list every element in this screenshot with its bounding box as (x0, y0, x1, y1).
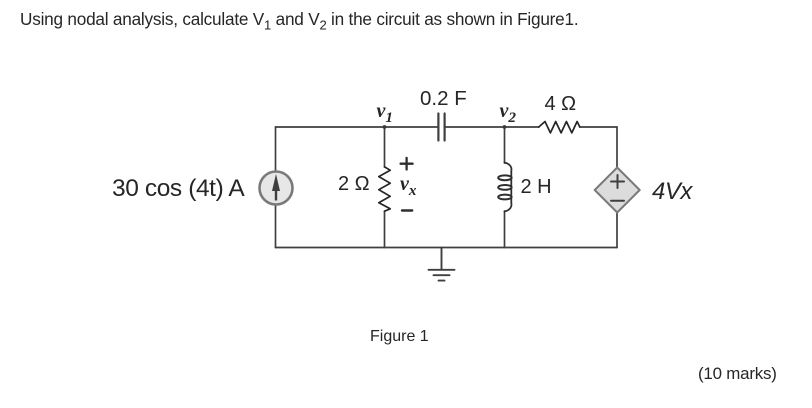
label 4 ohm (545, 93, 577, 116)
wire branch v2 above inductor (504, 127, 506, 163)
wire right above diamond (616, 127, 618, 168)
polarity plus for vx (401, 158, 413, 170)
resistor 2 ohm zigzag (379, 167, 390, 211)
wire bottom (276, 247, 618, 249)
wire right below diamond (616, 213, 618, 248)
label 30 cos (4t) A (112, 175, 244, 203)
label 0.2 F (420, 87, 467, 111)
diamond plus sign (611, 175, 624, 188)
wire branch v1 below resistor (384, 211, 386, 247)
label 4Vx (652, 178, 692, 206)
wire top right after resistor (580, 126, 617, 128)
label vx (400, 173, 416, 200)
marks note (698, 364, 777, 384)
current source arrow (272, 174, 280, 201)
dependent source 4Vx diamond (595, 168, 640, 213)
wire branch v2 below inductor (504, 211, 506, 248)
label 2 ohm (338, 173, 370, 196)
polarity minus for vx (402, 209, 412, 211)
label 2 H (521, 176, 552, 199)
ground symbol (429, 248, 455, 281)
wire branch v1 above resistor (384, 127, 386, 167)
node label v2 (500, 100, 516, 127)
node v1 junction (383, 125, 387, 129)
wire top left v1 segment (276, 126, 438, 128)
diamond minus sign (611, 200, 624, 202)
node v2 junction (503, 125, 507, 129)
wire top capacitor to v2 (446, 126, 539, 128)
wire left above source (275, 127, 277, 172)
node label v1 (377, 100, 393, 127)
caption Figure 1 (370, 328, 429, 346)
current source I1 circle (260, 172, 293, 205)
capacitor 0.2 F plates (438, 114, 444, 141)
inductor 2 H coil (498, 163, 511, 212)
title text (20, 9, 578, 32)
wire left below source (275, 205, 277, 248)
resistor 4 ohm zigzag (539, 122, 580, 133)
